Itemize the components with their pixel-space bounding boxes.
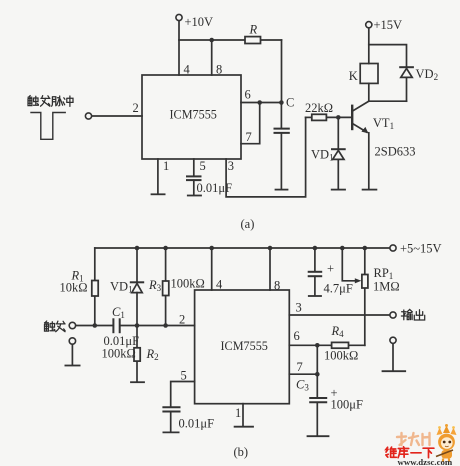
svg-text:R4: R4 xyxy=(331,324,345,339)
svg-text:7: 7 xyxy=(297,360,303,374)
svg-text:(b): (b) xyxy=(234,445,249,459)
svg-text:5: 5 xyxy=(200,159,206,173)
svg-text:2: 2 xyxy=(133,101,139,115)
svg-text:3: 3 xyxy=(296,301,302,315)
svg-text:10kΩ: 10kΩ xyxy=(60,281,88,295)
svg-text:+10V: +10V xyxy=(185,15,214,29)
svg-text:8: 8 xyxy=(216,63,222,77)
svg-text:1MΩ: 1MΩ xyxy=(373,280,400,294)
svg-text:7: 7 xyxy=(246,130,252,144)
svg-text:0.01μF: 0.01μF xyxy=(179,417,215,431)
svg-text:100kΩ: 100kΩ xyxy=(324,349,358,363)
svg-text:6: 6 xyxy=(245,88,251,102)
svg-text:4: 4 xyxy=(216,278,223,292)
svg-text:www.dzsc.com: www.dzsc.com xyxy=(398,457,453,466)
svg-text:6: 6 xyxy=(294,329,300,343)
svg-text:ICM7555: ICM7555 xyxy=(170,108,217,122)
svg-text:3: 3 xyxy=(228,159,234,173)
svg-text:C: C xyxy=(286,96,294,110)
svg-text:C3: C3 xyxy=(296,378,309,393)
svg-text:2SD633: 2SD633 xyxy=(375,145,416,159)
svg-text:100kΩ: 100kΩ xyxy=(171,277,205,291)
svg-text:0.01μF: 0.01μF xyxy=(197,181,233,195)
svg-text:ICM7555: ICM7555 xyxy=(221,339,268,353)
svg-text:R3: R3 xyxy=(148,278,162,293)
svg-text:100kΩ: 100kΩ xyxy=(102,347,136,361)
svg-text:VD1: VD1 xyxy=(311,148,334,163)
svg-text:R: R xyxy=(249,23,258,37)
svg-text:+5~15V: +5~15V xyxy=(400,241,442,255)
svg-text:VT1: VT1 xyxy=(373,116,394,131)
svg-text:1: 1 xyxy=(235,406,241,420)
svg-text:5: 5 xyxy=(181,369,187,383)
svg-text:(a): (a) xyxy=(241,217,255,231)
svg-text:+15V: +15V xyxy=(374,18,403,32)
svg-text:VD1: VD1 xyxy=(110,280,133,295)
svg-text:VD2: VD2 xyxy=(416,67,439,82)
svg-text:22kΩ: 22kΩ xyxy=(305,101,333,115)
svg-text:4.7μF: 4.7μF xyxy=(324,282,353,296)
svg-text:2: 2 xyxy=(179,313,185,327)
svg-text:R2: R2 xyxy=(146,347,159,362)
svg-text:+: + xyxy=(327,262,334,276)
svg-text:K: K xyxy=(349,69,358,83)
svg-text:1: 1 xyxy=(163,159,169,173)
svg-text:4: 4 xyxy=(184,63,191,77)
svg-text:100μF: 100μF xyxy=(331,398,363,412)
svg-text:8: 8 xyxy=(274,279,280,293)
svg-text:C1: C1 xyxy=(112,305,125,320)
